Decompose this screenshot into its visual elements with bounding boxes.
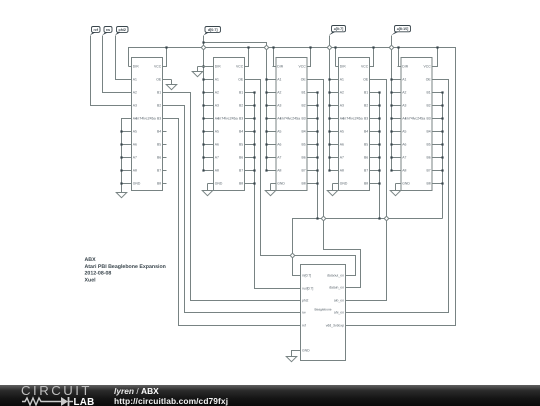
wire U6.GND to ground xyxy=(292,351,297,357)
junction dots a[0:7] bus at U4 xyxy=(328,78,330,80)
wire U4.OE to U6.alo_en xyxy=(350,80,387,301)
svg-text:B2: B2 xyxy=(239,104,243,108)
svg-text:ABX: ABX xyxy=(85,257,97,263)
svg-text:B1: B1 xyxy=(427,91,431,95)
svg-text:B4: B4 xyxy=(364,130,368,134)
svg-text:A7: A7 xyxy=(133,156,137,160)
svg-text:B4: B4 xyxy=(427,130,431,134)
svg-text:A2: A2 xyxy=(277,91,281,95)
svg-text:GND: GND xyxy=(277,182,285,186)
svg-text:a[0:7]: a[0:7] xyxy=(334,27,344,31)
wire U4.DIR to rail xyxy=(335,48,337,67)
wire U1.VCC to rail xyxy=(163,48,167,67)
svg-text:A3: A3 xyxy=(340,104,344,108)
crossing marker a[8:15] over rail xyxy=(389,45,394,50)
svg-text:B2: B2 xyxy=(302,104,306,108)
ground below U3 xyxy=(265,184,276,196)
svg-text:B3: B3 xyxy=(427,117,431,121)
wire phi2 flag to U1.A1 xyxy=(116,36,129,80)
svg-text:A6: A6 xyxy=(133,143,137,147)
svg-text:OE: OE xyxy=(156,78,162,82)
svg-text:A1: A1 xyxy=(402,78,406,82)
svg-text:B3: B3 xyxy=(239,117,243,121)
svg-text:a[8:15]: a[8:15] xyxy=(397,27,409,31)
svg-text:sn74lvc245a: sn74lvc245a xyxy=(405,117,425,121)
wire U5.VCC to rail xyxy=(433,48,438,67)
wire rw flag to U1.A2 xyxy=(103,36,129,93)
wire U1 unused inputs A4-A8,GND tie-down bus xyxy=(122,119,129,193)
svg-text:B5: B5 xyxy=(157,143,161,147)
svg-text:GND: GND xyxy=(402,182,410,186)
crossing marker U4.OE wire over in bus xyxy=(384,216,389,221)
author / title xyxy=(114,387,228,406)
svg-text:A5: A5 xyxy=(340,130,344,134)
svg-text:A2: A2 xyxy=(133,91,137,95)
svg-text:GND: GND xyxy=(340,182,348,186)
svg-text:B1: B1 xyxy=(239,91,243,95)
IC U4 sn74lvc245a body xyxy=(336,58,374,191)
svg-text:ahi_en: ahi_en xyxy=(334,311,344,315)
svg-text:OE: OE xyxy=(363,78,369,82)
wire U1 pin A8 to tie-down bus xyxy=(122,170,129,172)
svg-text:A6: A6 xyxy=(215,143,219,147)
ground at U6.GND xyxy=(286,357,297,362)
wire d[0:7] flag bus vertical at U2 xyxy=(203,36,205,171)
junction U3.VCC on rail xyxy=(309,46,311,48)
wire U2.DIR to ground xyxy=(198,66,211,68)
svg-text:A7: A7 xyxy=(340,156,344,160)
svg-text:OE: OE xyxy=(301,78,307,82)
svg-text:B3: B3 xyxy=(157,117,161,121)
svg-text:B6: B6 xyxy=(364,156,368,160)
junction dots d bus at U2 xyxy=(202,78,204,80)
svg-text:A7: A7 xyxy=(402,156,406,160)
wires U3 B pin taps xyxy=(311,92,318,94)
svg-text:VCC: VCC xyxy=(361,65,369,69)
svg-text:B4: B4 xyxy=(157,130,161,134)
junction dots U5 B bus xyxy=(441,91,443,93)
wires U5 B pin taps xyxy=(436,92,443,94)
wire U4.VCC to rail xyxy=(370,48,374,67)
wire in bus to U6.in[0:7] xyxy=(293,219,443,276)
wire a[8:15] flag bus vertical at U5 xyxy=(391,36,393,171)
wires a[0:7] taps to U4 A pins xyxy=(330,79,336,81)
svg-text:B5: B5 xyxy=(302,143,306,147)
svg-text:B6: B6 xyxy=(239,156,243,160)
wire U1.DIR to VCC rail xyxy=(129,66,132,68)
junction U5.DIR on rail xyxy=(397,46,399,48)
ground below U2 xyxy=(202,184,213,196)
svg-text:B7: B7 xyxy=(157,169,161,173)
wires d bus taps to U2 A pins xyxy=(204,79,211,81)
wires d bus taps to U3 A pins xyxy=(267,79,273,81)
wire U1 pin GND to tie-down bus xyxy=(122,183,129,185)
svg-text:B8: B8 xyxy=(427,182,431,186)
svg-text:2012-08-08: 2012-08-08 xyxy=(85,271,112,277)
svg-text:out[0:7]: out[0:7] xyxy=(302,287,313,291)
svg-text:A3: A3 xyxy=(277,104,281,108)
crossing marker d bus over rail xyxy=(201,45,206,50)
svg-text:B2: B2 xyxy=(364,104,368,108)
net flag ref xyxy=(90,27,100,36)
svg-text:A5: A5 xyxy=(215,130,219,134)
svg-text:A1: A1 xyxy=(133,78,137,82)
svg-text:B1: B1 xyxy=(157,91,161,95)
svg-text:DIR: DIR xyxy=(215,65,221,69)
junction d bus branch xyxy=(202,41,204,43)
junction U1.VCC on rail xyxy=(165,46,167,48)
svg-text:B4: B4 xyxy=(302,130,306,134)
svg-text:A8: A8 xyxy=(340,169,344,173)
crossing marker U2.OE wire over in wire xyxy=(290,253,295,258)
svg-text:sn74lvc245a: sn74lvc245a xyxy=(342,117,362,121)
svg-text:phi2: phi2 xyxy=(302,299,309,303)
junction dots a[8:15] bus at U5 xyxy=(390,78,392,80)
svg-text:datain_en: datain_en xyxy=(329,286,344,290)
wire U1.OE to ground xyxy=(163,79,172,81)
wire ref flag to U1.A3 xyxy=(91,36,129,106)
wire U5.GND to ground xyxy=(396,183,398,185)
svg-text:A2: A2 xyxy=(215,91,219,95)
ground below U4 xyxy=(327,184,338,196)
junction U3 B bus on in bus xyxy=(316,217,318,219)
svg-text:DIR: DIR xyxy=(402,65,408,69)
wire U3.GND to ground xyxy=(271,183,273,185)
wire U1.B1 to U6.phi2 xyxy=(163,93,297,301)
svg-text:A7: A7 xyxy=(277,156,281,160)
svg-text:B6: B6 xyxy=(157,156,161,160)
wire U1 pin A5 to tie-down bus xyxy=(122,131,129,133)
wire U3.OE to U6.datain_en xyxy=(308,80,361,288)
svg-text:B7: B7 xyxy=(302,169,306,173)
svg-text:B5: B5 xyxy=(364,143,368,147)
svg-text:rw: rw xyxy=(302,311,306,315)
svg-text:Xuel: Xuel xyxy=(85,278,97,284)
svg-text:A1: A1 xyxy=(215,78,219,82)
svg-text:A3: A3 xyxy=(402,104,406,108)
svg-text:B7: B7 xyxy=(427,169,431,173)
svg-text:VCC: VCC xyxy=(299,65,307,69)
svg-text:B8: B8 xyxy=(302,182,306,186)
svg-text:Beaglebone: Beaglebone xyxy=(314,308,331,312)
junction dots U3 B bus xyxy=(316,91,318,93)
wire U4 B-side bus to in bus xyxy=(379,93,381,219)
svg-text:B6: B6 xyxy=(427,156,431,160)
IC U2 sn74lvc245a body xyxy=(211,58,249,191)
svg-text:B2: B2 xyxy=(157,104,161,108)
ground at U2.DIR xyxy=(192,67,203,77)
svg-text:DIR: DIR xyxy=(340,65,346,69)
svg-text:B5: B5 xyxy=(427,143,431,147)
wire U1 pin A7 to tie-down bus xyxy=(122,157,129,159)
svg-text:A5: A5 xyxy=(133,130,137,134)
svg-text:B2: B2 xyxy=(427,104,431,108)
svg-text:B7: B7 xyxy=(239,169,243,173)
svg-text:A7: A7 xyxy=(215,156,219,160)
svg-text:d[0:7]: d[0:7] xyxy=(208,28,218,32)
svg-text:DIR: DIR xyxy=(277,65,283,69)
title block text xyxy=(85,257,166,284)
svg-text:alo_en: alo_en xyxy=(334,299,344,303)
svg-text:Atari PBI Beaglebone Expansion: Atari PBI Beaglebone Expansion xyxy=(85,264,166,270)
wires U2 B pin taps xyxy=(249,92,255,94)
svg-text:OE: OE xyxy=(238,78,244,82)
svg-text:B7: B7 xyxy=(364,169,368,173)
junction U2.VCC on rail xyxy=(247,46,249,48)
svg-text:DIR: DIR xyxy=(133,65,139,69)
svg-text:A8: A8 xyxy=(133,169,137,173)
svg-text:B4: B4 xyxy=(239,130,243,134)
svg-text:B5: B5 xyxy=(239,143,243,147)
svg-text:A5: A5 xyxy=(277,130,281,134)
net flag a[0:7] xyxy=(329,26,346,36)
wire U3 B-side bus to in bus xyxy=(317,93,319,219)
svg-text:dataout_en: dataout_en xyxy=(327,274,344,278)
CircuitLab logo xyxy=(21,385,101,396)
wire U2.OE to U6.dataout_en xyxy=(245,80,356,276)
svg-text:A6: A6 xyxy=(340,143,344,147)
wire U4.GND to ground xyxy=(333,183,336,185)
svg-text:B3: B3 xyxy=(302,117,306,121)
ground at U1.OE xyxy=(166,80,177,90)
net flag phi2 xyxy=(115,27,128,36)
svg-text:A6: A6 xyxy=(402,143,406,147)
junction U4.VCC on rail xyxy=(372,46,374,48)
svg-text:B8: B8 xyxy=(157,182,161,186)
net flag d[0:7] xyxy=(204,27,221,36)
svg-text:B8: B8 xyxy=(364,182,368,186)
wires U4 B pin taps xyxy=(374,92,380,94)
junction U4.DIR on rail xyxy=(334,46,336,48)
wire U5 B-side bus to in bus xyxy=(442,93,444,219)
wire U2 B-side bus to U6.out[0:7] xyxy=(255,93,297,289)
svg-text:B1: B1 xyxy=(364,91,368,95)
svg-text:A1: A1 xyxy=(277,78,281,82)
wire U5.OE to U6.ahi_en xyxy=(350,80,449,313)
wire a[0:7] flag bus vertical at U4 xyxy=(329,36,331,171)
junction U5.VCC on rail xyxy=(436,46,438,48)
svg-text:GND: GND xyxy=(302,349,310,353)
svg-text:B6: B6 xyxy=(302,156,306,160)
junction d bus at U2.DIR wire xyxy=(202,65,204,67)
junction dots U1 tie-down bus xyxy=(120,130,122,132)
wire U5.DIR to rail xyxy=(398,48,399,67)
svg-text:A8: A8 xyxy=(277,169,281,173)
svg-text:A6: A6 xyxy=(277,143,281,147)
crossing marker U3.OE wire over in bus xyxy=(321,216,326,221)
wire d[0:7] bus branch to U3 xyxy=(204,43,267,171)
svg-text:phi2: phi2 xyxy=(119,28,126,32)
wire U3.VCC to rail xyxy=(308,48,311,67)
wire U1 pin A6 to tie-down bus xyxy=(122,144,129,146)
IC U5 sn74lvc245a body xyxy=(398,58,436,191)
svg-text:OE: OE xyxy=(426,78,432,82)
junction dots d bus at U3 xyxy=(265,78,267,80)
IC U3 sn74lvc245a body xyxy=(273,58,311,191)
IC U6 Beaglebone body xyxy=(297,265,350,361)
junction U3.DIR on rail xyxy=(272,46,274,48)
wire U2.GND to ground xyxy=(208,183,211,185)
svg-text:B3: B3 xyxy=(364,117,368,121)
svg-text:VCC: VCC xyxy=(154,65,162,69)
crossing marker d bus branch over rail xyxy=(264,45,269,50)
wire U1.B2 to U6.rw xyxy=(163,106,297,313)
svg-text:VCC: VCC xyxy=(424,65,432,69)
svg-text:GND: GND xyxy=(133,182,141,186)
svg-text:VCC: VCC xyxy=(236,65,244,69)
svg-text:A5: A5 xyxy=(402,130,406,134)
IC U1 sn74lvc245a body xyxy=(129,58,167,191)
svg-text:A2: A2 xyxy=(402,91,406,95)
wire U2.VCC to rail xyxy=(245,48,249,67)
svg-text:B1: B1 xyxy=(302,91,306,95)
svg-text:sn74lvc245a: sn74lvc245a xyxy=(135,117,155,121)
svg-text:A8: A8 xyxy=(215,169,219,173)
crossing marker a[0:7] over rail xyxy=(327,45,332,50)
wire U1.B3 to U6.ref xyxy=(163,119,297,326)
svg-text:in[0:7]: in[0:7] xyxy=(302,274,311,278)
wire U3.DIR to rail xyxy=(273,48,274,67)
svg-text:A3: A3 xyxy=(133,104,137,108)
svg-text:sn74lvc245a: sn74lvc245a xyxy=(280,117,300,121)
svg-text:A3: A3 xyxy=(215,104,219,108)
svg-text:ref: ref xyxy=(93,28,98,32)
wire VCC rail to U6 vdd_3v3exp xyxy=(129,48,456,326)
junction U4 B bus on in bus xyxy=(378,217,380,219)
svg-text:A2: A2 xyxy=(340,91,344,95)
junction dots U4 B bus xyxy=(378,91,380,93)
ground below U1 xyxy=(116,193,127,198)
svg-text:GND: GND xyxy=(215,182,223,186)
svg-text:A8: A8 xyxy=(402,169,406,173)
ground below U5 xyxy=(390,184,401,196)
svg-text:rw: rw xyxy=(106,28,110,32)
svg-text:B8: B8 xyxy=(239,182,243,186)
svg-text:A1: A1 xyxy=(340,78,344,82)
svg-text:vdd_3v3exp: vdd_3v3exp xyxy=(326,324,344,328)
wires a[8:15] taps to U5 A pins xyxy=(392,79,398,81)
net flag rw xyxy=(102,27,112,36)
junction dots U2 B bus xyxy=(253,91,255,93)
svg-text:ref: ref xyxy=(302,324,306,328)
net flag a[8:15] xyxy=(391,26,410,36)
svg-text:sn74lvc245a: sn74lvc245a xyxy=(217,117,237,121)
